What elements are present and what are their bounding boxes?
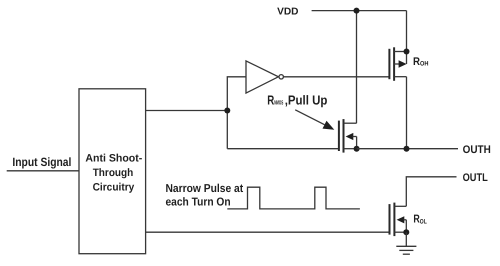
svg-text:VDD: VDD bbox=[277, 6, 298, 17]
label RNMOS Pull Up bbox=[267, 93, 327, 108]
svg-text:Anti Shoot-: Anti Shoot- bbox=[85, 153, 142, 165]
wire ROL source to ground bbox=[405, 232, 407, 246]
wire VDD rail bbox=[312, 10, 407, 12]
node RNMOS source on OUTH rail bbox=[354, 146, 360, 152]
annotation arrow to RNMOS bbox=[295, 110, 334, 130]
wire VDD drop to RNMOS drain bbox=[356, 11, 358, 124]
svg-text:RNMOS,Pull Up: RNMOS,Pull Up bbox=[267, 93, 327, 108]
wire OUTL from ROL drain bbox=[406, 177, 456, 207]
svg-text:ROH: ROH bbox=[413, 56, 429, 68]
wire RNMOS gate lead bbox=[227, 148, 339, 150]
wire ROH drain to OUTH node bbox=[406, 77, 408, 149]
node A junction bbox=[224, 108, 230, 114]
block anti shoot-through circuitry box bbox=[79, 89, 146, 254]
wire VDD drop to ROH source bbox=[406, 11, 408, 52]
transistor ROL (NMOS pull-down) bbox=[390, 203, 407, 237]
label OUTH bbox=[463, 144, 491, 156]
wire box top output to node A bbox=[146, 110, 228, 112]
svg-text:Through: Through bbox=[93, 167, 134, 179]
node VDD junction bbox=[354, 8, 360, 14]
svg-text:Circuitry: Circuitry bbox=[93, 182, 135, 194]
ground bbox=[396, 246, 416, 254]
wire node A riser to inverter input bbox=[227, 77, 246, 149]
label Input Signal bbox=[12, 155, 71, 169]
node ROL source junction bbox=[403, 229, 409, 235]
svg-text:OUTL: OUTL bbox=[463, 172, 488, 184]
label OUTL bbox=[463, 172, 488, 184]
transistor ROH (PMOS pull-up) bbox=[389, 47, 406, 81]
label Anti Shoot-Through Circuitry bbox=[85, 153, 142, 194]
svg-text:OUTH: OUTH bbox=[463, 144, 491, 156]
inverter U1 triangle bbox=[246, 61, 278, 93]
wire input signal lead bbox=[7, 170, 79, 172]
svg-text:ROL: ROL bbox=[413, 214, 426, 226]
wire OUTH rail bbox=[357, 148, 458, 150]
waveform narrow pulses bbox=[227, 187, 360, 209]
label ROH bbox=[413, 56, 429, 68]
svg-text:Input Signal: Input Signal bbox=[12, 155, 71, 169]
transistor RNMOS (NMOS pull-up) bbox=[339, 119, 357, 153]
label ROL bbox=[413, 214, 426, 226]
node ROH drain on OUTH rail bbox=[404, 146, 410, 152]
label Narrow Pulse at each Turn On bbox=[166, 183, 244, 209]
wire box bottom output to ROL gate bbox=[146, 231, 390, 233]
wire inverter output to ROH gate bbox=[283, 76, 389, 78]
svg-text:each Turn On: each Turn On bbox=[166, 197, 231, 209]
inverter output bubble bbox=[279, 75, 283, 79]
svg-text:Narrow Pulse at: Narrow Pulse at bbox=[166, 183, 244, 195]
label VDD bbox=[277, 6, 298, 17]
node ROH source junction bbox=[404, 49, 410, 55]
